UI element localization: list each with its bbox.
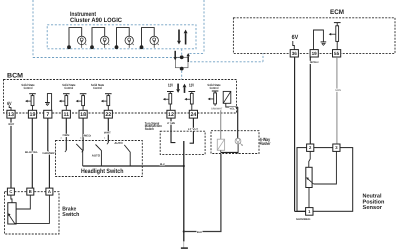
svg-text:Sensor: Sensor (363, 205, 383, 211)
svg-text:12: 12 (168, 112, 174, 118)
svg-text:RED: RED (84, 134, 92, 137)
svg-text:A: A (48, 189, 51, 194)
svg-text:Cluster A90 LOGIC: Cluster A90 LOGIC (70, 17, 122, 24)
svg-text:AUTO: AUTO (92, 154, 101, 158)
svg-text:7: 7 (46, 112, 49, 118)
svg-text:GRN/WHT: GRN/WHT (211, 107, 223, 110)
svg-text:12V: 12V (189, 83, 194, 88)
svg-text:Control: Control (210, 86, 219, 90)
svg-text:B: B (29, 189, 32, 194)
svg-text:Switch: Switch (145, 127, 154, 131)
svg-text:6V: 6V (292, 34, 299, 41)
svg-text:AUTO: AUTO (114, 141, 123, 145)
svg-text:Flasher: Flasher (260, 141, 271, 146)
svg-text:ECM: ECM (330, 9, 344, 16)
svg-text:BCM: BCM (7, 72, 24, 79)
svg-text:18: 18 (80, 112, 86, 118)
svg-text:GRN: GRN (335, 89, 341, 92)
svg-text:13: 13 (8, 112, 14, 118)
svg-text:BLU/YEL: BLU/YEL (25, 151, 38, 154)
svg-text:12V: 12V (168, 83, 173, 88)
svg-text:GRN/RED: GRN/RED (296, 218, 311, 221)
svg-text:ORN: ORN (63, 134, 70, 137)
svg-text:55: 55 (334, 51, 340, 56)
svg-text:Control: Control (93, 86, 102, 90)
svg-text:36: 36 (292, 51, 298, 56)
svg-text:BLK: BLK (197, 231, 202, 234)
svg-text:BLU: BLU (160, 163, 165, 166)
svg-text:GRN/WHT: GRN/WHT (42, 152, 56, 155)
svg-text:LT GRN: LT GRN (167, 122, 175, 125)
svg-text:Headlight Switch: Headlight Switch (81, 168, 124, 175)
svg-text:WHT/BLU: WHT/BLU (310, 61, 319, 64)
svg-text:WHT: WHT (8, 123, 14, 126)
svg-text:Control: Control (64, 86, 73, 90)
svg-text:YEL: YEL (229, 107, 235, 110)
svg-text:C: C (9, 189, 12, 194)
svg-text:19: 19 (312, 51, 318, 56)
svg-text:11: 11 (63, 112, 69, 118)
svg-text:Switch: Switch (62, 211, 80, 218)
svg-text:24: 24 (190, 112, 196, 118)
svg-text:WHT: WHT (104, 132, 111, 135)
svg-text:19: 19 (30, 112, 36, 118)
svg-text:Control: Control (24, 86, 33, 90)
svg-text:22: 22 (105, 112, 111, 118)
